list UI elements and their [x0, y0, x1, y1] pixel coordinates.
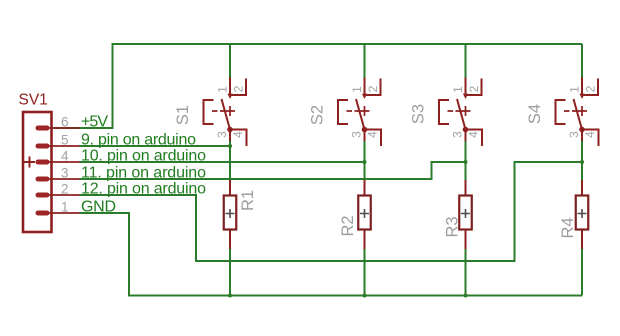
- S1 pin 4: [230, 130, 247, 147]
- svg-text:S4: S4: [526, 104, 544, 124]
- svg-text:R3: R3: [444, 216, 462, 237]
- S4 plunger cross: [577, 106, 587, 116]
- resistor R3: [459, 180, 472, 249]
- svg-text:1: 1: [451, 86, 465, 93]
- S4 pin 1: [581, 78, 583, 95]
- R1 pin top: [229, 180, 231, 196]
- S4 pin 3 junction dot: [579, 127, 585, 133]
- S2 button plunger: [338, 100, 348, 124]
- wire net GND to bottom bus: [80, 213, 583, 296]
- wire net 10. pin on arduino: [80, 161, 365, 163]
- SV1 pin 6 pad bar: [36, 126, 50, 131]
- S1 plunger link dashes: [212, 110, 226, 112]
- svg-text:4: 4: [467, 131, 481, 138]
- svg-text:R2: R2: [339, 215, 357, 236]
- svg-text:4: 4: [61, 149, 69, 164]
- S2 pin 4: [365, 130, 382, 147]
- wire R2 to GND bus: [364, 249, 366, 296]
- R3 pin top: [465, 180, 467, 196]
- svg-text:SV1: SV1: [19, 92, 48, 109]
- svg-text:11. pin on arduino: 11. pin on arduino: [81, 165, 206, 182]
- junction dots at wire tees: [228, 144, 584, 298]
- SV1 pin 1 line: [41, 212, 80, 214]
- S4 lever contact: [574, 99, 583, 130]
- svg-text:2: 2: [61, 182, 69, 197]
- wire R1 to GND bus: [229, 249, 231, 296]
- S3 pin number labels 1 2 3 4: [451, 85, 482, 138]
- svg-text:9. pin on arduino: 9. pin on arduino: [81, 132, 196, 149]
- S4 button plunger: [556, 100, 566, 124]
- wire R3 to GND bus: [465, 249, 467, 296]
- S2 plunger link dashes: [347, 110, 361, 112]
- S3 pin 1: [465, 78, 467, 95]
- svg-text:4: 4: [231, 131, 245, 138]
- SV1 pin 6 line: [41, 127, 80, 129]
- S4 pin number labels 1 2 3 4: [567, 85, 598, 138]
- R1 polarity cross: [226, 209, 235, 218]
- wire column S3 to R3: [465, 141, 467, 180]
- SV1 pin 2 line: [41, 194, 80, 196]
- R2 body: [358, 196, 371, 230]
- SV1 pin 3 line: [41, 178, 80, 180]
- wire net 9. pin on arduino: [80, 145, 231, 147]
- SV1 pin 4 pad bar: [36, 160, 50, 165]
- svg-text:4: 4: [583, 131, 597, 138]
- S3 pin 3: [465, 130, 467, 142]
- svg-text:3: 3: [215, 131, 229, 138]
- S2 pin 2: [366, 79, 381, 96]
- switch S3: [439, 78, 482, 147]
- svg-text:2: 2: [584, 85, 598, 92]
- svg-text:R4: R4: [559, 217, 577, 238]
- S2 pin number labels 1 2 3 4: [350, 85, 381, 138]
- svg-text:S1: S1: [174, 105, 192, 125]
- R2 polarity cross: [360, 209, 369, 218]
- svg-text:2: 2: [232, 85, 246, 92]
- wire riser bus to S3: [465, 44, 467, 78]
- switch S4: [556, 78, 599, 147]
- S3 pin 3 junction dot: [463, 127, 469, 133]
- R3 pin bottom: [465, 230, 467, 250]
- svg-text:2: 2: [366, 85, 380, 92]
- S1 pin 3: [229, 130, 231, 142]
- svg-text:6: 6: [61, 115, 69, 130]
- svg-text:10. pin on arduino: 10. pin on arduino: [81, 148, 206, 165]
- S3 pin 2: [467, 79, 482, 96]
- svg-text:3: 3: [61, 166, 69, 181]
- wire net 12. pin on arduino routed below: [80, 162, 583, 261]
- wire R4 to GND bus: [581, 249, 583, 296]
- R4 pin bottom: [581, 230, 583, 250]
- SV1 body: [23, 112, 52, 232]
- S2 plunger cross: [360, 106, 370, 116]
- svg-text:2: 2: [467, 85, 481, 92]
- svg-text:+5V: +5V: [81, 114, 108, 131]
- svg-text:S2: S2: [309, 105, 327, 125]
- SV1 pin 5 line: [41, 145, 80, 147]
- S1 pin 3 junction dot: [227, 127, 233, 133]
- resistor R1: [224, 180, 237, 249]
- S3 plunger link dashes: [448, 110, 462, 112]
- S1 button plunger: [204, 100, 214, 124]
- SV1 pin 1 pad bar: [36, 211, 50, 216]
- R3 polarity cross: [461, 209, 470, 218]
- S2 lever contact: [356, 99, 365, 130]
- connector SV1: [19, 92, 80, 233]
- svg-text:3: 3: [451, 131, 465, 138]
- S4 pin 4: [582, 130, 599, 147]
- wire riser bus to S4: [581, 44, 583, 78]
- S3 lever contact: [457, 99, 466, 130]
- svg-text:1: 1: [568, 86, 582, 93]
- S1 plunger cross: [225, 106, 235, 116]
- switch S2: [338, 78, 381, 147]
- SV1 polarity mark: [24, 157, 35, 168]
- wire +5V net: pin6 to riser to top bus: [54, 44, 582, 128]
- SV1 pin 4 line: [41, 161, 80, 163]
- svg-text:3: 3: [350, 131, 364, 138]
- switch S1: [204, 78, 247, 147]
- wire net 11. pin on arduino with jog: [80, 162, 466, 179]
- R1 pin bottom: [229, 230, 231, 250]
- wire column S4 to R4: [581, 141, 583, 180]
- svg-text:3: 3: [567, 131, 581, 138]
- S2 pin 1: [364, 78, 366, 95]
- R2 pin top: [364, 180, 366, 196]
- SV1 pin 3 pad bar: [36, 177, 50, 182]
- svg-text:4: 4: [366, 131, 380, 138]
- R4 pin top: [581, 180, 583, 196]
- S3 pin 4: [466, 130, 483, 147]
- S3 plunger cross: [461, 106, 471, 116]
- resistor R2: [358, 180, 371, 249]
- S3 button plunger: [439, 100, 449, 124]
- wire column S2 to R2: [364, 141, 366, 180]
- R2 pin bottom: [364, 230, 366, 250]
- R4 polarity cross: [578, 209, 587, 218]
- wire riser bus to S1: [229, 44, 231, 78]
- S1 pin 1: [229, 78, 231, 95]
- S1 lever contact: [222, 99, 231, 130]
- svg-text:5: 5: [61, 133, 69, 148]
- S1 pin number labels 1 2 3 4: [215, 85, 246, 138]
- resistor R4: [576, 180, 589, 249]
- S2 pin 3: [364, 130, 366, 142]
- SV1 pin 2 pad bar: [36, 193, 50, 198]
- wire column S1 to R1: [229, 141, 231, 180]
- svg-text:1: 1: [61, 200, 69, 215]
- SV1 pin 5 pad bar: [36, 144, 50, 149]
- R1 body: [224, 196, 237, 230]
- svg-text:1: 1: [216, 86, 230, 93]
- svg-text:1: 1: [350, 86, 364, 93]
- S2 pin 3 junction dot: [362, 127, 368, 133]
- wire riser bus to S2: [364, 44, 366, 78]
- S4 plunger link dashes: [564, 110, 578, 112]
- svg-text:S3: S3: [410, 104, 428, 124]
- SV1 pin numbers 6 5 4 3 2 1: [61, 115, 69, 215]
- svg-text:12. pin on arduino: 12. pin on arduino: [81, 181, 206, 198]
- S4 pin 3: [581, 130, 583, 142]
- S4 pin 2: [583, 79, 598, 96]
- svg-text:GND: GND: [81, 199, 116, 216]
- svg-text:R1: R1: [239, 190, 257, 211]
- R4 body: [576, 196, 589, 230]
- R3 body: [459, 196, 472, 230]
- S1 pin 2: [231, 79, 246, 96]
